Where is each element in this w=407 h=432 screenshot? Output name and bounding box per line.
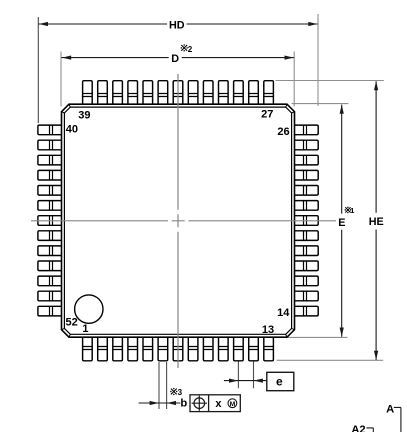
svg-text:40: 40	[66, 124, 78, 136]
svg-text:39: 39	[78, 109, 90, 121]
svg-text:14: 14	[277, 307, 290, 319]
svg-text:E: E	[338, 217, 345, 229]
svg-text:3: 3	[178, 388, 183, 397]
svg-text:x: x	[215, 398, 222, 410]
svg-text:HD: HD	[169, 20, 185, 32]
svg-text:A: A	[386, 403, 394, 415]
svg-text:1: 1	[350, 206, 355, 215]
svg-text:27: 27	[261, 109, 273, 121]
svg-text:13: 13	[262, 324, 274, 336]
svg-text:52: 52	[65, 316, 77, 328]
svg-text:D: D	[171, 53, 179, 65]
svg-text:2: 2	[188, 45, 193, 54]
svg-text:M: M	[230, 401, 236, 408]
svg-text:HE: HE	[369, 216, 384, 228]
svg-text:1: 1	[82, 323, 88, 335]
svg-text:A2: A2	[351, 424, 365, 432]
svg-text:e: e	[276, 375, 283, 389]
svg-text:26: 26	[277, 126, 289, 138]
svg-text:b: b	[180, 397, 187, 409]
